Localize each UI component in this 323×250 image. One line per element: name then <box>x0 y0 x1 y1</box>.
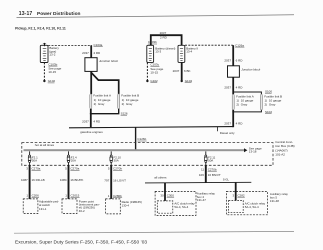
svg-text:Junction block: Junction block <box>241 68 261 72</box>
wire: below fusible links, rejoin <box>90 109 92 127</box>
svg-text:16 LG/VT: 16 LG/VT <box>113 179 126 183</box>
svg-text:3: 3 <box>233 193 235 197</box>
svg-text:C103a: C103a <box>94 43 103 47</box>
svg-text:6 RD: 6 RD <box>236 59 244 63</box>
svg-text:2037: 2037 <box>224 122 231 126</box>
splice S126 <box>90 113 92 115</box>
node below B2: connector + see page <box>150 63 163 75</box>
svg-text:10-15: 10-15 <box>48 70 56 74</box>
svg-text:Fusible link B: Fusible link B <box>121 93 139 97</box>
svg-text:16 BK/PK: 16 BK/PK <box>70 178 83 182</box>
svg-text:C103b: C103b <box>148 40 157 44</box>
connector below F2.11 <box>201 167 217 171</box>
svg-text:2) Gray: 2) Gray <box>94 102 105 106</box>
svg-text:Pickup, F2.1, F2.4, F2.10, F2.: Pickup, F2.1, F2.4, F2.10, F2.11 <box>15 27 66 31</box>
wire: B3 down to ground (solid) <box>181 62 183 80</box>
wire: JB2 output down <box>232 77 234 94</box>
svg-text:C280b: C280b <box>113 194 122 198</box>
drop to aux relay box 5 <box>235 183 237 201</box>
svg-text:16 RD-LB: 16 RD-LB <box>32 178 45 182</box>
svg-text:C300: C300 <box>167 193 175 197</box>
svg-text:13-17: 13-17 <box>19 11 33 17</box>
wire label 2037 4 RD <box>82 120 101 124</box>
svg-text:Power Distribution: Power Distribution <box>37 11 81 17</box>
svg-text:5A-4, 5A-4: 5A-4, 5A-4 <box>174 205 188 209</box>
svg-text:2037: 2037 <box>160 31 167 35</box>
svg-text:S126: S126 <box>121 111 128 115</box>
ground G104 <box>181 80 183 82</box>
svg-text:tion Box (CJB): tion Box (CJB) <box>275 144 294 148</box>
CJB label <box>275 140 294 156</box>
svg-text:2037: 2037 <box>224 59 231 63</box>
svg-text:1: 1 <box>65 194 67 198</box>
svg-text:S100: S100 <box>265 89 272 93</box>
svg-text:gasoline engines: gasoline engines <box>80 130 103 134</box>
wire W1 <box>29 165 31 199</box>
fusible link B (right pair) <box>260 94 262 110</box>
auxiliary relay box 4 (outer dashed) <box>155 191 196 215</box>
svg-text:C270a: C270a <box>70 167 79 171</box>
auxiliary relay box 5 (outer dashed) <box>227 191 268 214</box>
wire: down to main line <box>232 110 234 127</box>
battery B1 (left, gasoline) <box>40 43 48 63</box>
svg-text:2037: 2037 <box>82 51 89 55</box>
drop to aux relay box 4 <box>164 183 166 201</box>
svg-text:C103c: C103c <box>150 63 159 67</box>
connector below F2.4 <box>65 167 79 171</box>
svg-text:C126b: C126b <box>137 137 146 141</box>
wire W4 <box>205 165 207 183</box>
wire: B3 to junction block JB2 (dashed) <box>185 44 233 46</box>
svg-text:130-4: 130-4 <box>122 204 130 208</box>
svg-text:13-18: 13-18 <box>249 150 257 154</box>
aux relay box 4 side label <box>197 191 216 202</box>
component 2: power point <box>62 199 77 214</box>
wire: B2 down to ground (dashed) <box>146 63 148 81</box>
svg-text:2 RD: 2 RD <box>160 36 168 40</box>
svg-text:5A-4, 5A-4: 5A-4, 5A-4 <box>245 205 259 209</box>
svg-text:Excursion, Super Duty Series F: Excursion, Super Duty Series F-250, F-35… <box>15 240 147 246</box>
svg-text:4 RD: 4 RD <box>236 86 244 90</box>
svg-text:30A: 30A <box>114 159 119 163</box>
svg-text:131-47: 131-47 <box>197 198 206 202</box>
ground G102 <box>43 80 45 82</box>
svg-text:11: 11 <box>201 167 204 171</box>
svg-text:2037: 2037 <box>173 69 180 73</box>
aux relay box 5 side label <box>270 192 289 203</box>
svg-text:C2015: C2015 <box>71 194 80 198</box>
connector below F2.1 <box>26 167 40 171</box>
A/C clutch relay (box 5 inner) <box>229 201 244 213</box>
svg-text:Fusible link A: Fusible link A <box>93 93 111 97</box>
svg-text:C282: C282 <box>237 193 245 197</box>
svg-text:C270a: C270a <box>32 167 41 171</box>
svg-text:1: 1 <box>108 194 110 198</box>
footer rule <box>14 231 294 233</box>
svg-text:2) Gray: 2) Gray <box>265 103 276 107</box>
battery B1 label <box>49 46 59 56</box>
svg-text:G104: G104 <box>185 79 193 83</box>
svg-text:13-2: 13-2 <box>49 53 55 57</box>
svg-text:5: 5 <box>65 167 67 171</box>
svg-text:3: 3 <box>26 167 28 171</box>
svg-text:101-A2: 101-A2 <box>275 152 285 156</box>
bus bar <box>24 149 245 151</box>
A/C clutch relay (box 4 inner) <box>157 201 173 213</box>
svg-text:2) Gray: 2) Gray <box>236 103 247 107</box>
svg-text:13-3: 13-3 <box>155 50 161 54</box>
svg-text:30: 30 <box>160 193 164 197</box>
junction block JB1 <box>85 58 97 72</box>
svg-text:S102: S102 <box>265 110 272 114</box>
svg-text:1: 1 <box>26 194 28 198</box>
svg-text:50A: 50A <box>32 159 37 163</box>
battery B3 (Battery II) <box>178 45 185 62</box>
connector below F2.10 <box>108 167 122 171</box>
svg-text:131-48: 131-48 <box>270 199 279 203</box>
junction block JB2 <box>228 66 240 77</box>
svg-text:G102: G102 <box>150 79 158 83</box>
svg-text:5: 5 <box>108 167 110 171</box>
svg-text:2037: 2037 <box>82 120 89 124</box>
wire label 2037 4 RD <box>82 51 101 55</box>
wire: down to JB2 <box>232 45 234 66</box>
svg-text:2037: 2037 <box>224 86 231 90</box>
wire: B1 down to ground (dashed) <box>43 63 45 81</box>
svg-text:C126a: C126a <box>235 43 244 47</box>
svg-text:16 BN/VT: 16 BN/VT <box>208 173 221 177</box>
fusible link A (left) <box>90 94 92 109</box>
batteries B2+B3 jumper wire <box>151 35 182 45</box>
svg-text:797: 797 <box>104 179 109 183</box>
connector above component 2 <box>65 194 79 198</box>
svg-text:Diesel only: Diesel only <box>220 131 235 135</box>
rejoin wires, splice S102 <box>233 110 261 112</box>
svg-text:4 RD: 4 RD <box>236 122 244 126</box>
wire W3 <box>110 165 112 199</box>
wire: down to junction block JB1 <box>90 45 92 57</box>
svg-text:131-1: 131-1 <box>39 207 47 211</box>
svg-text:C206: C206 <box>32 194 40 198</box>
diesel only tick + label <box>216 127 218 131</box>
connector C126a <box>235 43 244 47</box>
see page 13-18 <box>249 146 262 153</box>
svg-text:G102: G102 <box>48 79 56 83</box>
svg-text:Junction block: Junction block <box>99 59 119 63</box>
svg-text:4 RD: 4 RD <box>93 120 101 124</box>
branch to fusible link B (right pair), splice S100 <box>233 92 261 94</box>
svg-text:10-15: 10-15 <box>150 70 158 74</box>
svg-text:6 BK: 6 BK <box>184 69 191 73</box>
connector C103b above B2 <box>148 40 157 44</box>
svg-text:13-4: 13-4 <box>186 50 192 54</box>
svg-text:1087: 1087 <box>21 178 28 182</box>
wire: feed down into CJB, connector C126b <box>135 127 137 150</box>
fusible link B (left pair) <box>118 94 120 109</box>
node below B1: connector + see page <box>48 62 61 74</box>
ground G102 (B2) <box>146 80 148 82</box>
component 1: adjustable pedal switch <box>23 199 38 214</box>
svg-text:20A: 20A <box>71 159 76 163</box>
fuse F2.11 <box>205 151 208 165</box>
wire W2 <box>68 165 70 199</box>
connector C103a <box>94 43 103 47</box>
connector above component 1 <box>26 194 39 198</box>
svg-text:2) Gray: 2) Gray <box>122 102 133 106</box>
main horizontal feed wire <box>69 127 233 128</box>
fuse F2.10 <box>110 151 113 165</box>
fusible link A (right pair) <box>232 94 234 110</box>
header title <box>17 11 295 18</box>
svg-text:all others: all others <box>154 176 167 180</box>
battery B2 (diesel) <box>147 45 154 62</box>
connector above component 3 <box>108 194 122 198</box>
svg-text:C270b: C270b <box>113 167 122 171</box>
svg-text:C270b: C270b <box>208 167 217 171</box>
svg-text:1084: 1084 <box>60 178 67 182</box>
svg-text:4 RD: 4 RD <box>93 51 101 55</box>
svg-text:hot at all times: hot at all times <box>35 143 55 147</box>
svg-text:46-2: 46-2 <box>79 209 85 213</box>
wire: JB1 branch to fusible link B <box>91 72 119 94</box>
CJB dashed box <box>22 143 273 166</box>
component 3: radio <box>106 199 121 214</box>
fuse F2.4 <box>67 151 70 165</box>
svg-text:50A: 50A <box>208 159 213 163</box>
fuse F2.1 <box>28 151 31 165</box>
svg-text:S-GL: S-GL <box>223 177 230 181</box>
svg-text:106: 106 <box>199 173 204 177</box>
wire: JB1 output down <box>90 71 92 94</box>
wire: B1 to junction block (dashed) <box>48 44 91 46</box>
